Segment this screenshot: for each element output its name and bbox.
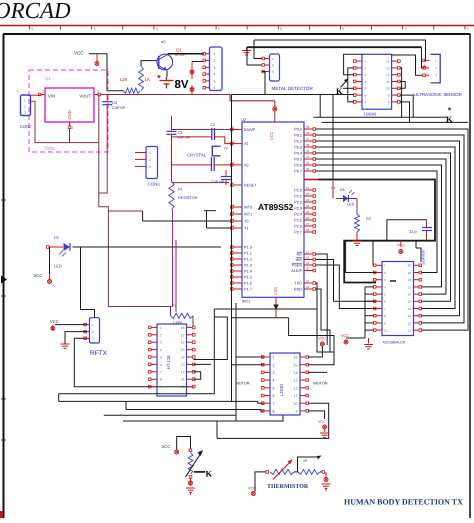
svg-text:VCC: VCC <box>34 273 43 278</box>
connector METAL DETECTOR <box>270 54 280 81</box>
svg-text:C3: C3 <box>178 131 183 135</box>
svg-text:3: 3 <box>97 90 99 94</box>
svg-text:9: 9 <box>296 410 298 414</box>
svg-text:P0.3: P0.3 <box>294 146 302 150</box>
svg-text:11: 11 <box>181 378 185 382</box>
svg-text:34: 34 <box>306 155 310 159</box>
wire branch to T0 net <box>108 210 142 212</box>
svg-text:5: 5 <box>343 27 345 31</box>
svg-text:P1.4: P1.4 <box>244 270 252 274</box>
svg-text:4: 4 <box>273 379 275 383</box>
svg-text:11: 11 <box>306 279 309 283</box>
svg-text:P1.5: P1.5 <box>244 276 252 280</box>
svg-text:VOUT: VOUT <box>79 94 91 99</box>
svg-text:6: 6 <box>160 363 162 367</box>
svg-text:13: 13 <box>294 379 298 383</box>
wire long L5 <box>123 415 283 421</box>
svg-text:8V: 8V <box>175 79 189 91</box>
wire VOUT rail to MCU VCC <box>101 95 275 101</box>
wire long vertical to D2 <box>332 95 334 180</box>
svg-text:30: 30 <box>306 267 310 271</box>
svg-text:17: 17 <box>181 333 185 337</box>
wire to T1 <box>207 227 232 229</box>
wire LED to P1.0 <box>73 246 222 248</box>
svg-text:RESET: RESET <box>244 184 257 188</box>
wire RESET <box>172 182 230 184</box>
capacitor C3 <box>167 130 177 132</box>
wire bus vertical 3 long <box>231 95 233 402</box>
svg-text:X2: X2 <box>244 164 249 168</box>
svg-text:27: 27 <box>306 222 310 226</box>
svg-text:LED: LED <box>54 264 62 269</box>
svg-text:P2.6: P2.6 <box>294 225 302 229</box>
svg-text:VCC: VCC <box>74 51 84 56</box>
wire bottom loop <box>217 403 329 438</box>
svg-text:T1: T1 <box>244 227 248 231</box>
svg-text:12K: 12K <box>120 77 128 82</box>
svg-text:P2.5: P2.5 <box>294 219 302 223</box>
wire R3 to rail <box>170 307 172 316</box>
MCU right pins P0 <box>304 128 313 130</box>
wire RD chain <box>316 254 328 345</box>
svg-text:ULTRASONIC SENSOR: ULTRASONIC SENSOR <box>414 92 462 97</box>
wire HT pin13 <box>194 363 212 365</box>
svg-text:1.50M: 1.50M <box>173 320 182 324</box>
wire GND return loop <box>31 101 99 142</box>
svg-text:15: 15 <box>181 348 185 352</box>
svg-text:14: 14 <box>408 307 412 311</box>
svg-text:CON3: CON3 <box>148 182 160 187</box>
dashed enclosure U1 regulator block <box>29 70 108 152</box>
ALE thick trace <box>304 179 318 181</box>
wire bus vertical 4 <box>235 303 237 421</box>
ground at ADC <box>368 338 370 344</box>
svg-text:1: 1 <box>365 60 367 64</box>
svg-text:RFTX: RFTX <box>90 350 108 357</box>
svg-text:15: 15 <box>294 363 298 367</box>
svg-text:10: 10 <box>384 329 388 333</box>
wire lower right <box>321 121 468 123</box>
svg-text:32: 32 <box>306 167 310 171</box>
svg-text:5: 5 <box>365 87 367 91</box>
wire EA to VCC rail <box>172 129 234 131</box>
svg-text:MOTOR: MOTOR <box>314 382 328 386</box>
svg-text:22: 22 <box>306 192 310 196</box>
svg-text:K: K <box>206 469 213 479</box>
wire WR chain <box>316 260 376 302</box>
svg-text:9: 9 <box>388 94 390 98</box>
svg-text:C1: C1 <box>331 186 335 190</box>
svg-text:10: 10 <box>294 402 298 406</box>
svg-text:12: 12 <box>386 73 390 77</box>
svg-text:12: 12 <box>294 386 298 390</box>
svg-text:AT89S52: AT89S52 <box>258 202 294 212</box>
battery 8V <box>158 75 174 89</box>
ground below R2 <box>356 232 358 240</box>
wire to net K right <box>313 116 447 118</box>
svg-text:P2.1: P2.1 <box>294 195 302 199</box>
svg-text:VCC: VCC <box>269 131 274 140</box>
svg-text:7: 7 <box>273 402 275 406</box>
wire TXD chain <box>316 283 334 352</box>
svg-text:C4: C4 <box>112 100 118 105</box>
svg-text:3: 3 <box>160 341 162 345</box>
svg-text:1: 1 <box>214 52 216 56</box>
svg-text:VCC: VCC <box>50 319 59 324</box>
regulator U1 7805 box <box>45 88 94 122</box>
svg-text:R2: R2 <box>366 217 371 221</box>
svg-text:3: 3 <box>365 73 367 77</box>
svg-text:2: 2 <box>72 126 74 130</box>
svg-text:LM293: LM293 <box>364 112 377 117</box>
svg-text:P1.7: P1.7 <box>244 288 252 292</box>
potentiometer R4 <box>188 453 193 475</box>
connector CON3 <box>146 147 158 179</box>
svg-text:2: 2 <box>365 66 367 70</box>
svg-text:15: 15 <box>408 300 412 304</box>
resistor 12K <box>123 88 140 93</box>
P0 bus wires to ADC <box>316 129 468 330</box>
svg-text:10: 10 <box>386 87 390 91</box>
svg-text:4: 4 <box>365 80 367 84</box>
svg-text:P2.4: P2.4 <box>294 213 302 217</box>
ground right of 1K <box>320 471 322 473</box>
svg-text:K: K <box>446 114 453 124</box>
svg-text:12: 12 <box>181 370 185 374</box>
svg-text:5: 5 <box>156 27 158 31</box>
svg-text:VSS: VSS <box>273 287 278 295</box>
svg-text:5: 5 <box>405 27 407 31</box>
VCC ground at L293D bottom <box>308 411 325 419</box>
svg-text:9: 9 <box>160 385 162 389</box>
svg-text:18: 18 <box>181 326 185 330</box>
svg-text:1K: 1K <box>145 77 151 82</box>
thermistor RT1 <box>270 469 294 474</box>
svg-text:VCC: VCC <box>318 420 326 424</box>
svg-text:6: 6 <box>214 86 216 90</box>
svg-text:P1.2: P1.2 <box>244 258 252 262</box>
svg-text:5: 5 <box>214 79 216 83</box>
op-amp U3 LM293 <box>362 54 392 109</box>
microcontroller U2 AT89S52 <box>242 122 304 297</box>
svg-text:P2.3: P2.3 <box>294 207 302 211</box>
MCU right pins control <box>304 253 313 255</box>
svg-text:P0.0: P0.0 <box>294 128 302 132</box>
svg-text:13: 13 <box>386 66 390 70</box>
wire long L3 <box>59 401 264 403</box>
wire PSEN chain <box>316 265 376 309</box>
svg-text:HT-12E: HT-12E <box>166 355 171 369</box>
metal detector wires <box>254 40 262 59</box>
LM293 left wires <box>344 54 362 74</box>
svg-text:14: 14 <box>294 371 298 375</box>
svg-text:12: 12 <box>408 321 412 325</box>
wire long L2 <box>59 393 215 395</box>
svg-text:P0.7: P0.7 <box>294 170 302 174</box>
svg-text:18: 18 <box>408 278 412 282</box>
svg-text:25: 25 <box>306 210 310 214</box>
svg-text:33: 33 <box>306 161 310 165</box>
svg-text:37: 37 <box>306 137 310 141</box>
crystal Y1 <box>212 146 220 156</box>
svg-text:35: 35 <box>306 149 310 153</box>
L293D right wires <box>308 352 334 365</box>
wire above thermistor junction <box>298 457 320 467</box>
svg-text:23: 23 <box>306 198 310 202</box>
svg-text:VIN: VIN <box>48 94 55 99</box>
svg-text:CON2: CON2 <box>20 124 32 129</box>
svg-text:8: 8 <box>273 410 275 414</box>
svg-text:WR: WR <box>296 258 303 262</box>
svg-text:3: 3 <box>273 371 275 375</box>
svg-text:MOTOR: MOTOR <box>236 382 250 386</box>
svg-text:5: 5 <box>160 356 162 360</box>
svg-text:16: 16 <box>306 256 310 260</box>
svg-text:TXD: TXD <box>294 282 302 286</box>
ground at RFTX <box>65 332 87 344</box>
svg-text:24: 24 <box>306 204 310 208</box>
svg-text:VCC: VCC <box>341 334 349 338</box>
ruler line <box>0 25 474 27</box>
capacitor C5 on reset <box>225 170 227 177</box>
svg-text:38: 38 <box>306 131 310 135</box>
wire top rail B thick <box>247 46 422 48</box>
page frame <box>3 34 5 518</box>
svg-text:10: 10 <box>181 385 185 389</box>
svg-text:P1.0: P1.0 <box>244 246 252 250</box>
svg-text:14: 14 <box>181 356 185 360</box>
svg-text:P0.5: P0.5 <box>294 158 302 162</box>
svg-text:ALE/P: ALE/P <box>291 269 302 273</box>
MCU left pins <box>233 129 242 131</box>
connector CON6 <box>210 47 223 91</box>
VCC bubble at MCU <box>273 107 277 111</box>
svg-text:26: 26 <box>306 216 310 220</box>
svg-text:T0: T0 <box>244 220 248 224</box>
svg-text:P2.7: P2.7 <box>294 231 302 235</box>
wire L293D pins left <box>236 356 264 358</box>
wire bus vertical 1 <box>213 309 215 394</box>
svg-text:5: 5 <box>467 27 469 31</box>
wire RFTX data to HT12E <box>74 338 193 386</box>
svg-text:LED: LED <box>347 203 355 207</box>
wire 1K to Q1 base <box>141 61 158 66</box>
svg-text:11: 11 <box>408 329 411 333</box>
svg-text:CAP NP: CAP NP <box>112 106 126 110</box>
svg-text:2: 2 <box>273 363 275 367</box>
LM293 right wires <box>400 68 402 117</box>
regulator pins <box>41 94 45 96</box>
svg-text:6: 6 <box>273 394 275 398</box>
svg-text:EA/VP: EA/VP <box>244 128 256 132</box>
svg-text:8: 8 <box>160 378 162 382</box>
resistor R1 reset <box>169 181 174 210</box>
svg-text:K: K <box>336 86 343 96</box>
connector ULTRASONIC SENSOR <box>431 54 441 83</box>
connector CON2 input <box>21 95 31 116</box>
svg-text:P1.1: P1.1 <box>244 252 252 256</box>
svg-text:21: 21 <box>306 186 310 190</box>
wire bus vertical 2 <box>194 317 228 360</box>
wire CON2 to VIN <box>31 94 42 96</box>
svg-text:INT1: INT1 <box>244 213 252 217</box>
svg-text:P0.2: P0.2 <box>294 140 302 144</box>
svg-text:PSEN: PSEN <box>292 264 303 268</box>
resistor 1K sense <box>294 471 298 473</box>
RFTX antenna wire <box>81 247 95 318</box>
svg-text:3: 3 <box>149 165 151 169</box>
svg-text:1: 1 <box>273 356 275 360</box>
wire HT pins 15-16 bridge <box>194 372 201 379</box>
svg-text:1: 1 <box>42 90 44 94</box>
svg-text:U2: U2 <box>241 117 247 122</box>
svg-text:4: 4 <box>160 348 162 352</box>
svg-text:5: 5 <box>32 27 34 31</box>
svg-text:P0.1: P0.1 <box>294 134 302 138</box>
svg-text:RD: RD <box>297 253 303 257</box>
svg-text:16: 16 <box>294 356 298 360</box>
wire VCC to base resistors <box>89 54 123 91</box>
svg-text:7: 7 <box>365 100 367 104</box>
resistor 1K <box>139 66 144 91</box>
encoder U4 HT-12E <box>157 324 187 396</box>
svg-text:17: 17 <box>408 285 412 289</box>
wire Q1 collector to CON6 pin1 <box>168 53 205 55</box>
svg-text:L293D: L293D <box>279 384 284 396</box>
svg-text:CAP NP: CAP NP <box>178 136 191 140</box>
svg-text:5: 5 <box>280 27 282 31</box>
battery terminal pins <box>191 62 193 80</box>
svg-text:33 p: 33 p <box>409 229 418 234</box>
wire long L4 <box>126 410 264 411</box>
wire CON3 to T0 <box>143 211 231 221</box>
capacitor C4 <box>106 95 108 102</box>
svg-text:VCC: VCC <box>162 444 171 449</box>
svg-text:5: 5 <box>273 386 275 390</box>
svg-text:29: 29 <box>306 261 310 265</box>
svg-text:5: 5 <box>218 27 220 31</box>
svg-text:D1: D1 <box>54 235 60 240</box>
capacitor C6 <box>210 157 212 171</box>
svg-text:39: 39 <box>306 125 310 129</box>
svg-text:11: 11 <box>294 394 298 398</box>
svg-text:13: 13 <box>181 363 185 367</box>
svg-text:10: 10 <box>306 285 310 289</box>
net flag K pot <box>194 471 205 473</box>
svg-text:ADC0804LCN: ADC0804LCN <box>383 341 406 345</box>
svg-text:20: 20 <box>408 264 412 268</box>
wire MD label box right <box>319 95 321 118</box>
ADC U5 ADC0804LCN <box>382 262 414 336</box>
svg-text:HUMAN BODY DETECTION TX: HUMAN BODY DETECTION TX <box>344 498 463 507</box>
svg-text:X1: X1 <box>244 142 249 146</box>
wire short reset cap <box>204 210 216 212</box>
svg-text:4: 4 <box>214 73 216 77</box>
svg-text:1K: 1K <box>303 459 308 463</box>
wire ground rail down left side <box>98 95 100 207</box>
svg-text:Q1: Q1 <box>176 48 183 53</box>
svg-text:28: 28 <box>306 228 310 232</box>
svg-text:THERMISTOR: THERMISTOR <box>267 484 309 490</box>
driver U6 L293D <box>270 353 300 415</box>
svg-text:P2.2: P2.2 <box>294 201 302 205</box>
connector RFTX <box>90 318 100 343</box>
svg-text:CRYSTAL: CRYSTAL <box>187 153 207 158</box>
svg-text:8051: 8051 <box>242 300 250 304</box>
wire CON6 pin2 <box>192 61 204 63</box>
capacitor 33p <box>422 227 432 229</box>
svg-text:7: 7 <box>160 370 162 374</box>
resistor R2 <box>355 214 360 232</box>
svg-text:2: 2 <box>160 333 162 337</box>
svg-text:VCC: VCC <box>318 337 326 341</box>
svg-text:P0.4: P0.4 <box>294 152 302 156</box>
svg-text:2: 2 <box>149 158 151 162</box>
svg-text:6: 6 <box>365 94 367 98</box>
svg-text:11: 11 <box>386 80 390 84</box>
svg-text:P0.6: P0.6 <box>294 164 302 168</box>
svg-text:R1: R1 <box>178 188 183 192</box>
svg-text:3: 3 <box>214 66 216 70</box>
svg-text:7805: 7805 <box>44 146 55 151</box>
svg-text:n0: n0 <box>161 39 166 44</box>
ground below potentiometer <box>189 476 192 479</box>
svg-text:C2: C2 <box>210 123 215 127</box>
svg-text:1: 1 <box>149 151 151 155</box>
wire top rail A <box>254 40 426 60</box>
svg-text:19: 19 <box>408 271 412 275</box>
wire R1 to ground rail <box>172 210 174 307</box>
svg-text:16: 16 <box>408 293 412 297</box>
svg-text:2: 2 <box>214 59 216 63</box>
svg-text:1: 1 <box>160 326 162 330</box>
ground at metal detector <box>246 47 248 50</box>
svg-text:RESISTOR: RESISTOR <box>178 196 198 200</box>
svg-text:10uF/63V: 10uF/63V <box>422 249 426 265</box>
svg-text:13: 13 <box>408 314 412 318</box>
svg-text:14: 14 <box>386 60 390 64</box>
svg-text:D1: D1 <box>340 188 345 192</box>
svg-text:8: 8 <box>388 100 390 104</box>
svg-text:RXD: RXD <box>294 288 302 292</box>
svg-text:5: 5 <box>94 27 96 31</box>
svg-text:P2.0: P2.0 <box>294 189 302 193</box>
svg-text:16: 16 <box>181 341 185 345</box>
svg-text:17: 17 <box>306 250 310 254</box>
svg-text:2: 2 <box>17 89 19 93</box>
wire D2 to R2 <box>349 199 358 215</box>
power-on LED branch wire <box>332 180 334 199</box>
wire box above ADC <box>387 220 427 241</box>
svg-text:Y2: Y2 <box>224 147 228 151</box>
svg-text:P1.3: P1.3 <box>244 264 252 268</box>
svg-text:36: 36 <box>306 143 310 147</box>
svg-text:GND: GND <box>67 110 72 119</box>
svg-text:INT0: INT0 <box>244 206 252 210</box>
svg-text:ORCAD: ORCAD <box>0 0 71 23</box>
svg-text:METAL DETECTOR: METAL DETECTOR <box>272 86 314 91</box>
svg-text:P1.6: P1.6 <box>244 282 252 286</box>
ADC left wires to vcc/gnd <box>364 287 366 338</box>
svg-text:CAP NP: CAP NP <box>211 180 225 184</box>
MCU right pins P2 <box>304 189 313 191</box>
wire long L4b <box>104 414 236 416</box>
transistor Q1 <box>157 54 173 70</box>
svg-text:U1: U1 <box>45 76 51 81</box>
